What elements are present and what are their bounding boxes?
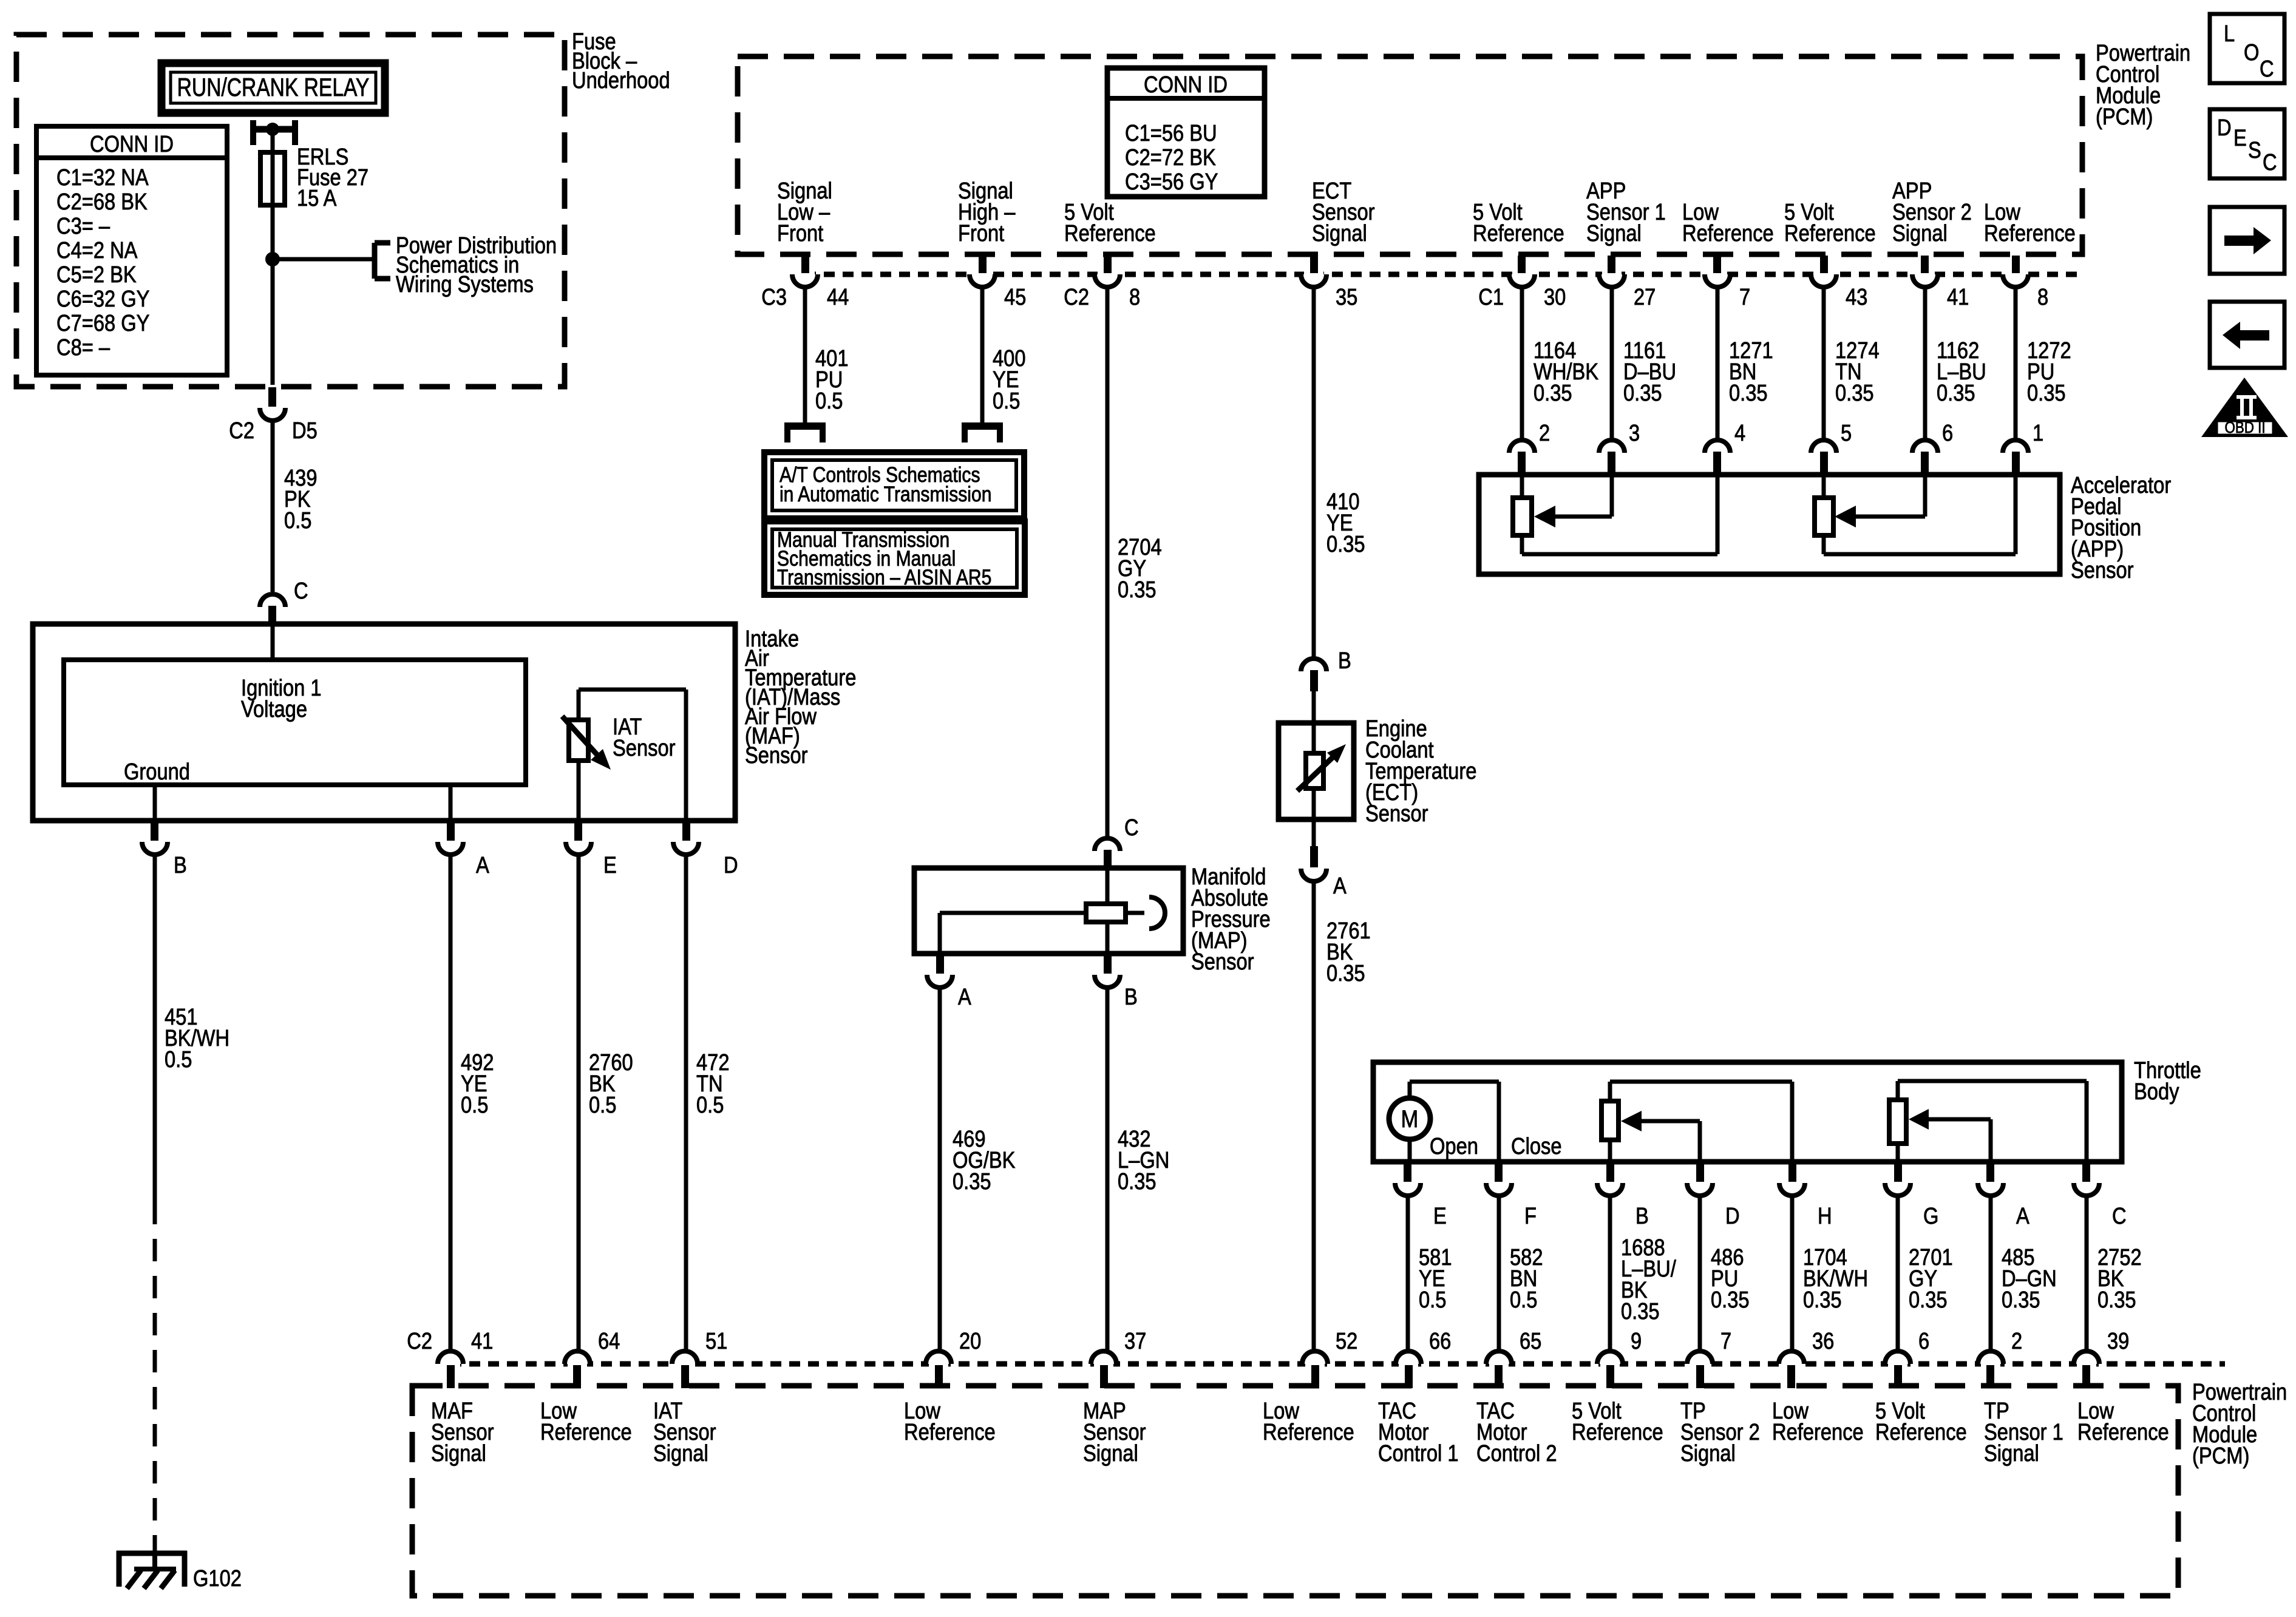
svg-text:0.35: 0.35 xyxy=(2097,1287,2136,1313)
svg-text:E: E xyxy=(2233,125,2247,151)
svg-text:Wiring Systems: Wiring Systems xyxy=(396,271,534,297)
svg-text:43: 43 xyxy=(1846,284,1867,310)
svg-text:B: B xyxy=(1124,984,1138,1010)
svg-text:9: 9 xyxy=(1631,1328,1642,1354)
svg-text:Body: Body xyxy=(2134,1079,2179,1105)
svg-text:35: 35 xyxy=(1336,284,1357,310)
svg-text:C: C xyxy=(1124,815,1139,841)
svg-text:0.35: 0.35 xyxy=(1909,1287,1948,1313)
svg-text:C: C xyxy=(2112,1203,2127,1229)
svg-text:0.5: 0.5 xyxy=(993,388,1020,414)
svg-text:27: 27 xyxy=(1634,284,1656,310)
svg-text:D: D xyxy=(724,852,738,878)
svg-text:0.35: 0.35 xyxy=(1711,1287,1750,1313)
svg-text:45: 45 xyxy=(1004,284,1026,310)
svg-text:0.35: 0.35 xyxy=(1937,380,1975,406)
svg-text:Reference: Reference xyxy=(904,1419,996,1445)
svg-text:A: A xyxy=(476,852,489,878)
svg-text:5: 5 xyxy=(1841,420,1852,446)
svg-text:0.35: 0.35 xyxy=(2027,380,2066,406)
svg-text:Sensor: Sensor xyxy=(1191,949,1254,975)
svg-text:0.35: 0.35 xyxy=(1326,960,1365,986)
svg-text:39: 39 xyxy=(2107,1328,2129,1354)
svg-text:Front: Front xyxy=(777,220,823,246)
svg-text:Control 1: Control 1 xyxy=(1378,1440,1459,1466)
svg-text:Reference: Reference xyxy=(540,1419,632,1445)
svg-text:0.5: 0.5 xyxy=(165,1046,192,1073)
svg-text:Close: Close xyxy=(1511,1133,1562,1159)
svg-text:51: 51 xyxy=(705,1328,727,1354)
svg-text:OBD II: OBD II xyxy=(2224,419,2265,436)
svg-text:0.5: 0.5 xyxy=(696,1092,724,1118)
svg-text:20: 20 xyxy=(959,1328,981,1354)
svg-text:0.35: 0.35 xyxy=(1118,1168,1156,1195)
svg-text:0.5: 0.5 xyxy=(589,1092,616,1118)
svg-text:65: 65 xyxy=(1520,1328,1541,1354)
svg-text:RUN/CRANK RELAY: RUN/CRANK RELAY xyxy=(177,74,370,102)
svg-text:37: 37 xyxy=(1124,1328,1146,1354)
svg-text:C2=72 BK: C2=72 BK xyxy=(1125,144,1216,171)
svg-text:Signal: Signal xyxy=(1312,220,1367,246)
svg-text:7: 7 xyxy=(1720,1328,1731,1354)
svg-text:C6=32 GY: C6=32 GY xyxy=(56,286,149,312)
svg-text:C2: C2 xyxy=(1064,284,1089,310)
svg-text:Reference: Reference xyxy=(1772,1419,1864,1445)
svg-text:0.35: 0.35 xyxy=(1621,1298,1660,1324)
svg-text:G: G xyxy=(1923,1203,1938,1229)
svg-text:66: 66 xyxy=(1429,1328,1451,1354)
svg-text:C4=2 NA: C4=2 NA xyxy=(56,237,138,263)
svg-text:0.35: 0.35 xyxy=(953,1168,991,1195)
svg-text:G102: G102 xyxy=(193,1565,242,1592)
svg-text:3: 3 xyxy=(1629,420,1640,446)
svg-text:30: 30 xyxy=(1544,284,1566,310)
svg-text:Sensor: Sensor xyxy=(613,735,676,761)
svg-text:A: A xyxy=(1333,873,1347,899)
svg-text:CONN ID: CONN ID xyxy=(90,131,174,157)
svg-text:C3=56 GY: C3=56 GY xyxy=(1125,169,1218,195)
svg-text:L: L xyxy=(2224,21,2235,47)
svg-text:C5=2 BK: C5=2 BK xyxy=(56,262,137,288)
svg-text:Reference: Reference xyxy=(1682,220,1774,246)
svg-text:C: C xyxy=(2260,56,2274,82)
svg-text:Sensor: Sensor xyxy=(2071,557,2134,583)
svg-text:44: 44 xyxy=(827,284,849,310)
svg-text:Sensor: Sensor xyxy=(1365,801,1428,827)
svg-text:0.5: 0.5 xyxy=(1510,1287,1537,1313)
svg-text:(PCM): (PCM) xyxy=(2192,1443,2249,1469)
svg-text:6: 6 xyxy=(1918,1328,1929,1354)
svg-text:Signal: Signal xyxy=(1892,220,1948,246)
svg-text:36: 36 xyxy=(1812,1328,1834,1354)
svg-text:Sensor: Sensor xyxy=(745,742,808,768)
svg-text:Control 2: Control 2 xyxy=(1476,1440,1557,1466)
svg-text:O: O xyxy=(2244,39,2259,66)
svg-text:0.35: 0.35 xyxy=(1326,531,1365,557)
svg-text:(PCM): (PCM) xyxy=(2096,104,2153,130)
svg-text:Reference: Reference xyxy=(1984,220,2076,246)
svg-text:A: A xyxy=(958,984,971,1010)
svg-text:0.35: 0.35 xyxy=(1533,380,1572,406)
svg-text:F: F xyxy=(1524,1203,1537,1229)
svg-text:52: 52 xyxy=(1336,1328,1357,1354)
svg-text:Reference: Reference xyxy=(1263,1419,1354,1445)
svg-text:7: 7 xyxy=(1739,284,1750,310)
svg-text:6: 6 xyxy=(1942,420,1953,446)
svg-text:Transmission – AISIN AR5: Transmission – AISIN AR5 xyxy=(777,565,991,589)
svg-text:Ground: Ground xyxy=(124,759,190,785)
svg-text:C2: C2 xyxy=(407,1328,432,1354)
svg-text:M: M xyxy=(1401,1105,1419,1133)
svg-text:Signal: Signal xyxy=(1586,220,1642,246)
svg-text:1: 1 xyxy=(2033,420,2043,446)
svg-text:Voltage: Voltage xyxy=(241,696,307,722)
svg-text:8: 8 xyxy=(2037,284,2048,310)
svg-text:B: B xyxy=(1338,648,1351,674)
svg-text:C2=68 BK: C2=68 BK xyxy=(56,189,148,215)
svg-text:C3: C3 xyxy=(761,284,787,310)
svg-text:64: 64 xyxy=(598,1328,620,1354)
svg-text:2: 2 xyxy=(1539,420,1550,446)
svg-text:in Automatic Transmission: in Automatic Transmission xyxy=(779,482,991,506)
svg-text:C3= –: C3= – xyxy=(56,213,110,239)
svg-text:A: A xyxy=(2016,1203,2029,1229)
svg-text:Signal: Signal xyxy=(1984,1440,2039,1466)
svg-text:0.35: 0.35 xyxy=(1623,380,1662,406)
svg-text:41: 41 xyxy=(1947,284,1969,310)
svg-text:Reference: Reference xyxy=(1473,220,1564,246)
svg-text:Open: Open xyxy=(1430,1133,1478,1159)
svg-text:D: D xyxy=(2217,115,2232,141)
svg-text:41: 41 xyxy=(471,1328,493,1354)
svg-text:E: E xyxy=(1433,1203,1447,1229)
svg-text:0.35: 0.35 xyxy=(1118,577,1156,603)
svg-text:Reference: Reference xyxy=(1875,1419,1967,1445)
svg-text:Underhood: Underhood xyxy=(572,67,670,93)
svg-text:Signal: Signal xyxy=(431,1440,486,1466)
svg-text:Signal: Signal xyxy=(1083,1440,1138,1466)
svg-text:C8= –: C8= – xyxy=(56,334,110,361)
svg-text:H: H xyxy=(1818,1203,1832,1229)
svg-text:0.35: 0.35 xyxy=(2002,1287,2040,1313)
svg-text:0.5: 0.5 xyxy=(461,1092,488,1118)
svg-text:C1=32 NA: C1=32 NA xyxy=(56,164,149,191)
svg-text:Reference: Reference xyxy=(1784,220,1876,246)
svg-text:0.35: 0.35 xyxy=(1729,380,1768,406)
svg-text:Reference: Reference xyxy=(1572,1419,1663,1445)
svg-text:0.35: 0.35 xyxy=(1835,380,1874,406)
svg-text:C: C xyxy=(294,578,308,604)
svg-text:C2: C2 xyxy=(229,418,254,444)
svg-text:CONN ID: CONN ID xyxy=(1144,72,1228,98)
svg-text:Signal: Signal xyxy=(1680,1440,1736,1466)
svg-text:C1=56 BU: C1=56 BU xyxy=(1125,120,1217,146)
svg-text:D5: D5 xyxy=(292,418,318,444)
svg-text:C1: C1 xyxy=(1478,284,1504,310)
svg-text:0.35: 0.35 xyxy=(1803,1287,1842,1313)
svg-text:C: C xyxy=(2263,149,2277,175)
svg-text:0.5: 0.5 xyxy=(815,388,843,414)
svg-text:8: 8 xyxy=(1129,284,1140,310)
svg-text:0.5: 0.5 xyxy=(284,507,311,534)
svg-text:B: B xyxy=(1635,1203,1649,1229)
svg-text:B: B xyxy=(174,852,187,878)
svg-text:Reference: Reference xyxy=(2077,1419,2169,1445)
svg-text:Front: Front xyxy=(958,220,1004,246)
svg-text:Reference: Reference xyxy=(1064,220,1156,246)
svg-text:S: S xyxy=(2248,137,2261,163)
svg-text:C7=68 GY: C7=68 GY xyxy=(56,310,149,336)
svg-text:4: 4 xyxy=(1734,420,1745,446)
svg-text:2: 2 xyxy=(2011,1328,2022,1354)
svg-text:15 A: 15 A xyxy=(297,185,337,211)
svg-text:Signal: Signal xyxy=(653,1440,708,1466)
svg-text:D: D xyxy=(1725,1203,1740,1229)
svg-text:0.5: 0.5 xyxy=(1419,1287,1446,1313)
svg-text:E: E xyxy=(603,852,617,878)
